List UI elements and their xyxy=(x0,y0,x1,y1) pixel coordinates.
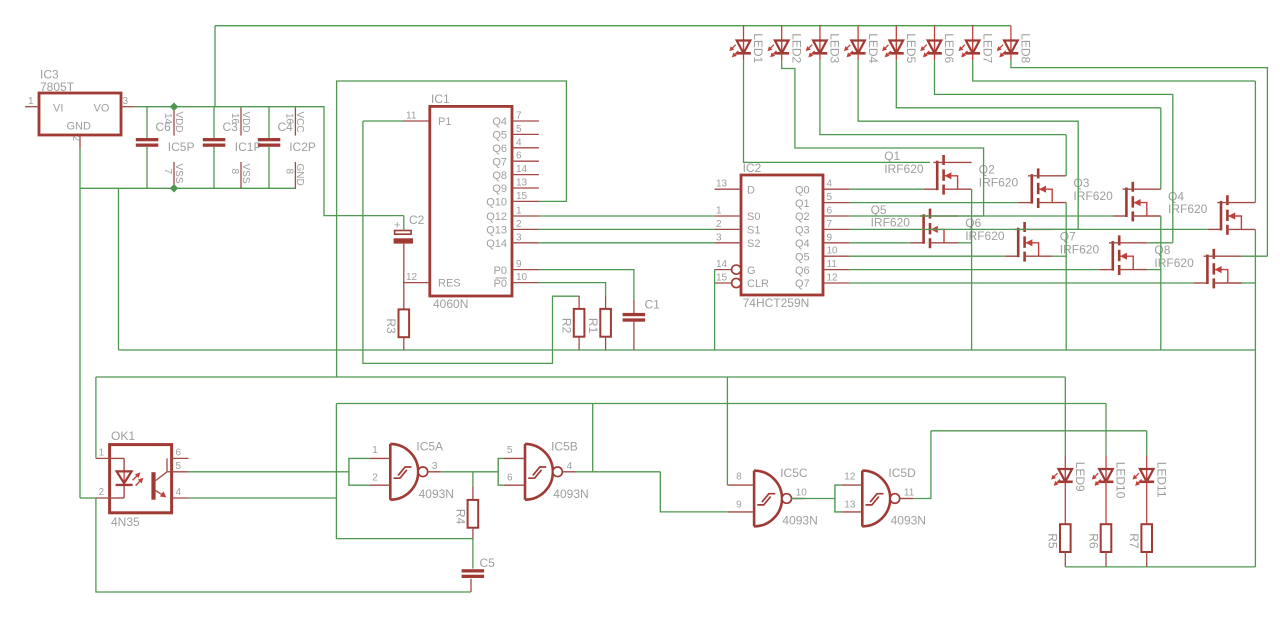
svg-text:LED6: LED6 xyxy=(942,33,956,63)
capacitor C4 xyxy=(258,138,281,147)
svg-text:LED3: LED3 xyxy=(828,33,842,63)
pin 14 of IC1 (Q8) xyxy=(512,174,539,176)
transistor Q8 (IRF620) xyxy=(1154,243,1241,288)
junction +5V rail / IC5P VDD xyxy=(170,102,178,110)
svg-text:13: 13 xyxy=(716,179,728,190)
wire LED3 to Q2 drain xyxy=(820,60,1066,134)
svg-text:9: 9 xyxy=(736,499,742,510)
svg-text:4060N: 4060N xyxy=(433,297,468,311)
power pin IC5P VSS xyxy=(173,162,175,188)
pin 14 of IC2 (G) xyxy=(715,269,732,271)
svg-text:IC5A: IC5A xyxy=(416,440,443,454)
wire GND bus y188 xyxy=(80,187,296,189)
svg-text:11: 11 xyxy=(904,488,915,499)
NAND gate IC5C (4093N) xyxy=(727,466,817,528)
resistor R3 xyxy=(384,309,409,337)
svg-text:15: 15 xyxy=(716,273,728,284)
svg-text:15: 15 xyxy=(516,191,528,202)
svg-text:1: 1 xyxy=(28,96,34,107)
pin 5 of IC1 (Q5) xyxy=(512,133,539,135)
wire anode LED10 xyxy=(1105,404,1107,456)
svg-text:LED1: LED1 xyxy=(751,33,765,63)
transistor Q4 (IRF620) xyxy=(1168,189,1255,234)
pin 6 of IC1 (Q7) xyxy=(512,160,539,162)
svg-text:RES: RES xyxy=(438,278,461,290)
svg-text:10: 10 xyxy=(796,488,808,499)
pin 1 of OK1 xyxy=(96,457,110,459)
svg-text:5: 5 xyxy=(507,445,513,456)
svg-text:Q7: Q7 xyxy=(492,156,507,168)
pin LED10 cathode / R6 top xyxy=(1105,482,1107,524)
svg-text:Q7: Q7 xyxy=(795,278,810,290)
pin LED10 anode lead xyxy=(1105,456,1107,469)
pin LED8 cathode lead xyxy=(1010,53,1012,60)
svg-text:IC2: IC2 xyxy=(743,161,762,175)
wire gate Q4 xyxy=(850,228,1208,230)
wire anode LED9 xyxy=(1064,377,1066,456)
svg-text:Q5: Q5 xyxy=(795,251,810,263)
svg-text:R1: R1 xyxy=(586,318,600,334)
NAND gate IC5D (4093N) xyxy=(841,466,926,528)
transistor Q5 (IRF620) xyxy=(871,203,958,248)
svg-text:R6: R6 xyxy=(1086,533,1100,549)
resistor R2 xyxy=(560,309,585,337)
wire drain Q2 up xyxy=(1065,135,1067,176)
pin 4 of IC1 (Q6) xyxy=(512,147,539,149)
pin R2 bottom lead xyxy=(578,337,580,350)
wire LED4 to Q6 drain xyxy=(858,60,1078,229)
svg-text:8: 8 xyxy=(283,169,294,175)
svg-text:7: 7 xyxy=(827,219,833,230)
wire source Q6 join xyxy=(1053,255,1067,257)
wire drain Q3 up xyxy=(1160,108,1162,189)
pin R7 bottom lead xyxy=(1146,552,1148,567)
svg-text:Q9: Q9 xyxy=(492,183,507,195)
svg-text:IC5D: IC5D xyxy=(888,466,916,480)
pin LED9 anode lead xyxy=(1064,456,1066,469)
wire drain Q7 extension xyxy=(1147,242,1173,244)
pin R2 top lead xyxy=(578,296,580,309)
wire C6 top lead xyxy=(146,107,148,138)
wire Q10 feedback loop to bus377 xyxy=(337,81,567,377)
transistor Q2 (IRF620) xyxy=(979,163,1066,208)
svg-text:12: 12 xyxy=(827,273,839,284)
svg-text:+: + xyxy=(394,220,400,232)
power pin IC2P GND xyxy=(294,162,296,188)
pin 12 of IC1 (RES) xyxy=(403,282,430,284)
svg-text:3: 3 xyxy=(432,461,438,472)
wire P0 to C1 xyxy=(539,270,634,300)
pin R3 bottom lead xyxy=(403,337,405,350)
wire C6 bottom lead xyxy=(146,147,148,188)
svg-text:IC5P: IC5P xyxy=(168,140,195,154)
transistor Q7 (IRF620) xyxy=(1060,230,1147,275)
wire GND to OK1 pin2 xyxy=(80,497,96,499)
pin 10 of IC1 (P0b) xyxy=(512,282,539,284)
svg-text:Q2: Q2 xyxy=(795,211,810,223)
pin LED8 anode lead xyxy=(1010,26,1012,41)
wire gate Q5 xyxy=(850,242,910,244)
svg-text:6: 6 xyxy=(827,206,833,217)
wire bus430 to LED11 xyxy=(931,430,1147,432)
svg-text:8: 8 xyxy=(736,472,742,483)
wire P1 left xyxy=(363,120,403,122)
resistor R5 xyxy=(1046,524,1071,552)
svg-text:GND: GND xyxy=(67,121,92,133)
wire C4 top lead xyxy=(268,107,270,138)
svg-text:Q4: Q4 xyxy=(492,116,507,128)
IC IC2 74HCT259N latch xyxy=(741,161,823,310)
wire bus377 (Q10 net) to LED9 xyxy=(96,376,1065,378)
svg-text:Q6: Q6 xyxy=(795,265,810,277)
pin C2 bottom lead / wire to RES xyxy=(403,244,405,283)
svg-text:16: 16 xyxy=(283,113,294,125)
svg-text:C2: C2 xyxy=(409,213,425,227)
wire source Q8 join xyxy=(1242,282,1256,284)
wire gate Q8 xyxy=(850,282,1194,284)
svg-text:11: 11 xyxy=(406,111,417,122)
svg-text:LED8: LED8 xyxy=(1019,33,1033,63)
pin 7 of IC1 (Q4) xyxy=(512,120,539,122)
pin 5 of OK1 xyxy=(172,471,189,473)
pin LED4 anode lead xyxy=(857,26,859,41)
svg-text:12: 12 xyxy=(406,272,418,283)
transistor Q3 (IRF620) xyxy=(1073,176,1160,221)
svg-text:P0: P0 xyxy=(494,265,507,277)
pin 2 of IC1 (Q13) xyxy=(512,228,539,230)
svg-text:Q6: Q6 xyxy=(492,143,507,155)
wire G/CLR tie to GND rail xyxy=(714,270,716,350)
svg-text:4093N: 4093N xyxy=(553,487,588,501)
wire gate Q1 xyxy=(850,188,924,190)
wire IC5B out up to bus403 xyxy=(592,404,594,472)
svg-text:4N35: 4N35 xyxy=(111,515,140,529)
junction GND bus / IC5P VSS xyxy=(170,184,178,192)
svg-text:6: 6 xyxy=(176,447,182,458)
NAND gate IC5A (4093N) xyxy=(369,440,454,502)
svg-text:4: 4 xyxy=(827,179,833,190)
svg-text:6: 6 xyxy=(507,473,513,484)
svg-text:VI: VI xyxy=(53,103,63,115)
svg-text:OK1: OK1 xyxy=(111,429,135,443)
pin C1 bottom lead xyxy=(633,322,635,350)
pin C1 top lead xyxy=(633,300,635,313)
pin LED3 anode lead xyxy=(819,26,821,41)
pin R3 top lead xyxy=(403,283,405,310)
pin 2 of IC3 (GND) xyxy=(79,135,81,149)
resistor R6 xyxy=(1086,524,1111,552)
svg-text:5: 5 xyxy=(827,192,833,203)
pin 11 of IC2 (Q6) xyxy=(823,269,850,271)
svg-text:8: 8 xyxy=(229,169,240,175)
svg-text:13: 13 xyxy=(516,178,528,189)
wire GND bus drop to main GND rail xyxy=(118,188,120,350)
svg-text:P0: P0 xyxy=(494,278,507,290)
svg-text:C5: C5 xyxy=(480,556,496,570)
svg-text:7: 7 xyxy=(516,111,522,122)
wire LED1 to Q1 drain xyxy=(744,60,931,162)
svg-text:IC5C: IC5C xyxy=(780,466,808,480)
svg-text:LED11: LED11 xyxy=(1154,462,1168,498)
svg-text:11: 11 xyxy=(827,259,838,270)
svg-text:IC2P: IC2P xyxy=(289,140,316,154)
pin R4 top lead xyxy=(472,486,474,500)
svg-text:IC1: IC1 xyxy=(431,92,450,106)
svg-text:2: 2 xyxy=(70,136,81,142)
wire source Q2/Q6 to GND rail xyxy=(1065,203,1067,350)
pin LED6 cathode lead xyxy=(934,53,936,60)
pin 2 of IC2 (S1) xyxy=(715,228,741,230)
pin LED1 anode lead xyxy=(743,26,745,41)
wire OK1 pin4 to bus403 column xyxy=(189,497,337,499)
IC IC1 4060N counter xyxy=(430,92,512,311)
capacitor C2 (polarized) xyxy=(394,213,425,244)
svg-text:R3: R3 xyxy=(384,318,398,334)
pin 9 of IC2 (Q4) xyxy=(823,242,850,244)
svg-text:14: 14 xyxy=(516,164,528,175)
capacitor C1 xyxy=(623,313,646,322)
power pin IC2P VCC xyxy=(294,108,296,136)
svg-text:9: 9 xyxy=(516,259,522,270)
pin 12 of IC2 (Q7) xyxy=(823,282,850,284)
pin LED9 cathode / R5 top xyxy=(1064,482,1066,524)
svg-text:R7: R7 xyxy=(1127,533,1141,549)
svg-text:Q3: Q3 xyxy=(795,225,810,237)
svg-text:3: 3 xyxy=(516,232,522,243)
wire LED6 to Q7 drain xyxy=(935,60,1173,243)
wire LED7 to Q4 drain xyxy=(973,60,1256,81)
wire bus403 to LED10 xyxy=(336,403,1106,405)
wire source Q1/Q5 to GND rail xyxy=(971,189,973,350)
capacitor C6 xyxy=(136,138,159,147)
svg-text:6: 6 xyxy=(516,151,522,162)
svg-text:2: 2 xyxy=(516,219,522,230)
voltage regulator IC3 7805T xyxy=(39,67,121,135)
wire S0 net xyxy=(539,215,715,217)
svg-text:S0: S0 xyxy=(747,211,760,223)
wire input tie of IC5D xyxy=(835,485,841,512)
wire GND bottom loop to C5 xyxy=(96,498,471,592)
svg-text:IRF620: IRF620 xyxy=(1168,202,1208,216)
pin LED11 anode lead xyxy=(1146,456,1148,469)
pin 4 of OK1 xyxy=(172,497,189,499)
pin LED4 cathode lead xyxy=(857,53,859,60)
svg-text:9: 9 xyxy=(827,232,833,243)
power pin IC1P VSS xyxy=(240,162,242,188)
pin 15 of IC1 (Q10) xyxy=(512,200,539,202)
pin LED2 anode lead xyxy=(781,26,783,41)
pin 5 of IC2 (Q1) xyxy=(823,202,850,204)
power pin IC5P VDD xyxy=(173,108,175,136)
wire IC5C out to IC5D in xyxy=(792,498,835,500)
pin R1 bottom lead xyxy=(605,337,607,350)
resistor R4 xyxy=(453,500,478,528)
svg-text:1: 1 xyxy=(372,445,378,456)
pin LED2 cathode lead xyxy=(781,53,783,60)
wire C3 bottom lead xyxy=(213,147,215,188)
wire gate Q6 xyxy=(850,255,1005,257)
svg-text:4093N: 4093N xyxy=(419,487,454,501)
pin LED5 cathode lead xyxy=(895,53,897,60)
wire source Q5 join xyxy=(958,242,972,244)
wire LED anode rail drop to +5V xyxy=(214,26,216,107)
wire drain Q6 extension xyxy=(1053,228,1079,230)
svg-text:12: 12 xyxy=(844,472,856,483)
wire IC5B out to IC5C pin9 xyxy=(660,472,727,512)
svg-text:C1: C1 xyxy=(645,297,661,311)
pin LED11 cathode / R7 top xyxy=(1146,482,1148,524)
svg-text:VDD: VDD xyxy=(240,112,251,133)
wire GND rail down right side xyxy=(1254,350,1256,567)
svg-text:GND: GND xyxy=(294,164,305,186)
svg-text:Q8: Q8 xyxy=(492,170,507,182)
wire gate Q3 xyxy=(850,215,1113,217)
svg-text:P1: P1 xyxy=(438,116,451,128)
capacitor C5 xyxy=(462,569,485,578)
svg-text:14: 14 xyxy=(162,113,173,125)
NAND gate IC5B (4093N) xyxy=(504,440,589,502)
svg-text:3: 3 xyxy=(123,96,129,107)
resistor R1 xyxy=(586,309,611,337)
wire source Q3/Q7 to GND rail xyxy=(1160,216,1162,350)
svg-text:1: 1 xyxy=(516,206,522,217)
svg-text:S2: S2 xyxy=(747,238,760,250)
svg-text:74HCT259N: 74HCT259N xyxy=(743,296,810,310)
transistor Q1 (IRF620) xyxy=(884,149,971,194)
wire drain Q8 extension xyxy=(1242,255,1268,257)
wire R4/C5 junction to C5 xyxy=(472,539,474,569)
wire P1 to R2 top xyxy=(363,121,579,363)
svg-text:Q12: Q12 xyxy=(486,211,507,223)
svg-text:VDD: VDD xyxy=(173,112,184,133)
wire LED2 to Q5 drain xyxy=(782,60,984,216)
svg-text:2: 2 xyxy=(98,487,104,498)
pin C5 bottom lead xyxy=(470,579,472,592)
svg-text:7805T: 7805T xyxy=(40,80,75,94)
pin LED1 cathode lead xyxy=(743,53,745,60)
svg-text:5: 5 xyxy=(516,124,522,135)
svg-text:G: G xyxy=(747,265,756,277)
capacitor C3 xyxy=(203,138,226,147)
svg-text:LED9: LED9 xyxy=(1073,462,1087,492)
wire bus377 down to OK1 pin1 xyxy=(95,377,97,458)
svg-text:LED2: LED2 xyxy=(789,33,803,63)
svg-text:Q1: Q1 xyxy=(795,198,810,210)
svg-text:4093N: 4093N xyxy=(782,514,817,528)
power pin IC1P VDD xyxy=(240,108,242,136)
pin 9 of IC1 (P0) xyxy=(512,269,539,271)
pin 7 of IC2 (Q3) xyxy=(823,228,850,230)
pin 3 of IC1 (Q14) xyxy=(512,242,539,244)
pin 13 of IC2 (D) xyxy=(715,188,741,190)
wire IC5D out up xyxy=(913,431,931,499)
wire S1 net xyxy=(539,228,715,230)
pin R1 top lead xyxy=(605,296,607,309)
wire main GND rail y350 xyxy=(119,349,1256,351)
pin 4 of IC2 (Q0) xyxy=(823,188,850,190)
wire gate Q2 xyxy=(850,202,1019,204)
wire LED anode top rail xyxy=(215,25,1011,27)
svg-text:14: 14 xyxy=(716,259,728,270)
svg-text:IC5B: IC5B xyxy=(551,440,578,454)
pin 13 of IC1 (Q9) xyxy=(512,187,539,189)
wire OK1 pin5 to IC5A inputs xyxy=(189,471,349,473)
svg-text:R4: R4 xyxy=(453,509,467,525)
pin 10 of IC2 (Q5) xyxy=(823,255,850,257)
wire gate Q7 xyxy=(850,269,1100,271)
svg-text:4: 4 xyxy=(567,461,573,472)
wire C2 top xyxy=(403,216,405,231)
wire S2 net xyxy=(539,242,715,244)
svg-text:LED7: LED7 xyxy=(980,33,994,63)
svg-text:4093N: 4093N xyxy=(891,514,926,528)
svg-text:2: 2 xyxy=(372,473,378,484)
svg-text:VCC: VCC xyxy=(294,112,305,133)
pin LED6 anode lead xyxy=(934,26,936,41)
pin 1 of IC3 xyxy=(25,106,39,108)
svg-text:IRF620: IRF620 xyxy=(884,162,924,176)
svg-text:2: 2 xyxy=(716,219,722,230)
wire drain Q4 up xyxy=(1254,81,1256,203)
svg-text:Q10: Q10 xyxy=(486,197,507,209)
svg-text:IRF620: IRF620 xyxy=(979,175,1019,189)
pin LED7 anode lead xyxy=(972,26,974,41)
wire C3 top lead xyxy=(213,107,215,138)
svg-text:Q14: Q14 xyxy=(486,238,507,250)
svg-text:CLR: CLR xyxy=(747,278,769,290)
svg-text:IRF620: IRF620 xyxy=(1073,189,1113,203)
pin 2 of OK1 xyxy=(96,497,110,499)
wire bus403 down to R4/C5 node xyxy=(336,404,473,539)
pin 3 of IC2 (S2) xyxy=(715,242,741,244)
wire bus377 down to IC5C pin8 xyxy=(726,377,728,485)
svg-text:16: 16 xyxy=(229,113,240,125)
wire +5V rail from VO to C2+ xyxy=(135,107,404,216)
pin R6 bottom lead xyxy=(1105,552,1107,567)
wire IC5A out to IC5B in xyxy=(441,471,498,473)
wire source Q4/Q8 to GND rail xyxy=(1254,229,1256,350)
wire C4 bottom lead xyxy=(268,147,270,188)
wire P0bar to R1 xyxy=(539,283,606,296)
svg-text:LED5: LED5 xyxy=(904,33,918,63)
svg-text:IRF620: IRF620 xyxy=(871,216,911,230)
svg-text:3: 3 xyxy=(716,232,722,243)
pin 11 of IC1 (P1) xyxy=(403,120,430,122)
pin 3 of IC3 xyxy=(121,106,135,108)
pin LED7 cathode lead xyxy=(972,53,974,60)
pin R4 bottom lead xyxy=(472,528,474,539)
pin 1 of IC2 (S0) xyxy=(715,215,741,217)
svg-text:Q4: Q4 xyxy=(795,238,810,250)
wire input tie of IC5B xyxy=(498,458,504,485)
wire R4 top branch xyxy=(472,472,474,487)
svg-text:Q5: Q5 xyxy=(492,130,507,142)
svg-text:R2: R2 xyxy=(560,318,574,334)
wire GND from IC3 pin2 down to OK1 pin2 column xyxy=(79,149,81,499)
svg-text:10: 10 xyxy=(516,272,528,283)
resistor R7 xyxy=(1127,524,1152,552)
wire LED5 to Q3 drain xyxy=(896,60,1161,108)
svg-text:LED10: LED10 xyxy=(1114,462,1128,499)
pin 6 of OK1 xyxy=(172,457,189,459)
svg-text:5: 5 xyxy=(176,461,182,472)
svg-text:LED4: LED4 xyxy=(866,33,880,63)
svg-text:Q0: Q0 xyxy=(795,184,810,196)
svg-text:4: 4 xyxy=(516,137,522,148)
svg-text:Q13: Q13 xyxy=(486,225,507,237)
svg-text:7: 7 xyxy=(162,169,173,175)
svg-text:1: 1 xyxy=(98,447,104,458)
